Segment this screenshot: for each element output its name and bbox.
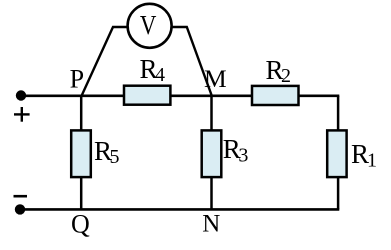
svg-text:M: M <box>204 64 227 93</box>
wire: voltmeter left lead to node P <box>82 27 127 96</box>
resistor R5 (left branch) <box>71 130 91 177</box>
plus sign <box>14 113 30 115</box>
resistor R1 (right branch) <box>327 130 346 177</box>
svg-text:Q: Q <box>71 210 90 239</box>
terminal dot - (bottom left) <box>15 204 25 214</box>
svg-text:N: N <box>202 211 220 238</box>
wire: bottom horizontal from - terminal through Q, N to right corner <box>21 208 340 211</box>
svg-text:P: P <box>70 65 84 94</box>
wire: right branch through R1 <box>337 96 340 210</box>
resistor R4 (between P and M) <box>124 86 170 105</box>
terminal dot + (top left) <box>16 90 26 100</box>
voltmeter V (circle meter) <box>128 4 172 48</box>
wire: middle branch M to N through R3 <box>210 96 213 210</box>
resistor R2 (right of M) <box>252 86 299 105</box>
svg-text:V: V <box>140 10 157 40</box>
resistor R3 (middle branch) <box>202 130 222 177</box>
wire: left branch P to Q through R5 <box>80 96 83 210</box>
wire: voltmeter right lead to node M <box>172 27 212 96</box>
minus sign <box>14 195 28 198</box>
wire: top horizontal from + terminal through P, R4, M, R2 to right corner <box>21 95 340 98</box>
